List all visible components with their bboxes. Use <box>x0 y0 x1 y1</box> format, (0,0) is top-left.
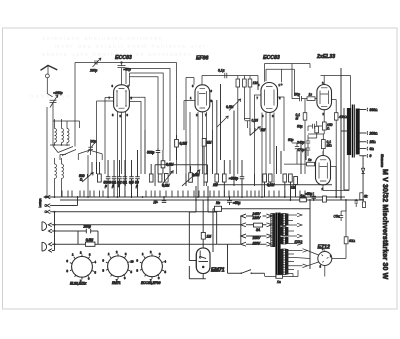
secondary winding block3 <box>281 237 284 244</box>
input transformer upper winding b <box>62 129 64 143</box>
svg-text:200p: 200p <box>83 225 92 229</box>
wire V4 anode top <box>321 76 351 109</box>
wire comb ticks into bus <box>62 191 305 198</box>
secondary winding col2 <box>285 214 288 226</box>
svg-text:0,5M: 0,5M <box>192 173 200 177</box>
wire B+ center tap <box>341 68 349 200</box>
tube V1 ECC83 envelope <box>114 85 130 112</box>
EZ12 pin numbers <box>320 247 333 269</box>
wire verticals group5 <box>177 135 307 174</box>
cap bus right <box>312 192 317 200</box>
svg-text:0,1µ: 0,1µ <box>218 69 225 73</box>
svg-text:0,5M: 0,5M <box>226 105 234 109</box>
band switch S1 wipers <box>58 147 76 156</box>
resistor 1M EM71 <box>201 233 205 240</box>
tap labels <box>369 108 379 158</box>
wire V5 anode down <box>323 155 349 191</box>
EF86 screen box <box>184 101 213 131</box>
jack chevron D2a <box>49 242 241 246</box>
wire secondary taps <box>359 110 366 156</box>
transformer core <box>275 213 277 279</box>
capacitor c4 row <box>123 160 127 197</box>
jack circle row3 <box>45 211 47 213</box>
wire top bus y62.5 <box>75 63 177 175</box>
wire trimmer to coils <box>53 102 80 152</box>
socket S2 pins <box>106 254 130 279</box>
tube V5 electrodes <box>319 160 327 181</box>
svg-text:0,3M: 0,3M <box>180 142 188 146</box>
svg-text:400Ω: 400Ω <box>339 115 348 119</box>
primary chevron r3 <box>267 234 272 238</box>
resistor MOhm fb2 <box>321 140 325 149</box>
jack circle row3 <box>45 211 47 213</box>
cap H <box>162 197 166 203</box>
wire V1 pin2 right <box>129 97 145 174</box>
socket S1 numbers <box>67 251 97 284</box>
primary chevron r1 <box>267 214 272 218</box>
socket S3 numbers <box>137 250 167 283</box>
primary chevron r3 <box>267 234 272 238</box>
svg-text:15Ω: 15Ω <box>370 140 377 144</box>
junction dot anode cap <box>121 62 123 64</box>
svg-text:1a: 1a <box>301 194 305 198</box>
heater chevrons <box>303 249 308 268</box>
svg-text:ECC83: ECC83 <box>263 55 280 61</box>
capacitor 50p V5 <box>292 143 299 149</box>
tap hooks <box>366 108 369 158</box>
wire mains row3 <box>246 235 267 237</box>
fuse 1a bus <box>300 198 307 202</box>
resistor box row a <box>98 174 102 182</box>
svg-text:MΩ: MΩ <box>327 144 333 148</box>
resistor box row e <box>215 174 219 182</box>
cap bus right <box>312 192 317 200</box>
potentiometer 0.5M mid <box>229 99 241 111</box>
jack chevron D2b <box>49 249 55 253</box>
cap H <box>162 197 166 203</box>
capacitor 50p anode ECC83 <box>118 63 126 86</box>
wire coil stems <box>47 107 70 197</box>
secondary winding block1 <box>281 214 284 226</box>
EM71 internals <box>199 251 209 262</box>
svg-text:EF86: EF86 <box>196 56 209 62</box>
tube V1 pin numbers <box>109 84 133 118</box>
bus components 50u cap <box>227 197 232 205</box>
svg-text:0,5M: 0,5M <box>86 238 94 242</box>
svg-text:1M: 1M <box>207 141 212 145</box>
svg-text:0: 0 <box>370 154 372 158</box>
tube EM71 envelope <box>196 248 210 274</box>
socket S1 numbers <box>67 251 97 284</box>
resistor box row c <box>158 174 162 182</box>
primary winding blocks <box>272 214 275 248</box>
svg-text:800Ω: 800Ω <box>370 108 379 112</box>
neon lamp Ns <box>215 206 222 211</box>
socket S1 pins <box>70 254 94 279</box>
potentiometer 0.5M row <box>165 174 169 183</box>
capacitor c5 row <box>129 160 133 197</box>
wire coupling bus y75.5 <box>202 76 258 85</box>
resistor box row e <box>215 174 219 182</box>
wire diode net <box>362 156 364 200</box>
DIN jack D2 <box>42 242 47 251</box>
wire g1 line <box>301 98 317 100</box>
EM71 dot <box>202 266 204 268</box>
potentiometer lower arrow <box>217 116 228 127</box>
potentiometer 500ohm <box>82 173 93 182</box>
resistor R box3 1M <box>248 79 252 87</box>
fuse 3A <box>254 223 263 227</box>
bus ground y197 <box>44 196 346 198</box>
antenna stem circle <box>46 74 50 78</box>
junction dots x54.5 <box>54 211 56 245</box>
wire antenna down <box>47 65 52 96</box>
svg-text:M: M <box>296 117 299 121</box>
bias line y184.8 <box>213 184 332 186</box>
capacitor 200p <box>86 229 90 233</box>
resistor R box1 <box>236 79 240 87</box>
wire switch feed <box>228 244 242 273</box>
svg-text:50µ: 50µ <box>297 125 303 129</box>
socket S2 pins <box>106 254 130 279</box>
capacitor c4 row <box>123 160 127 197</box>
svg-text:60p: 60p <box>91 139 97 143</box>
jack chevron row2 <box>47 197 78 207</box>
capacitor c3 row <box>117 160 121 197</box>
transformer core <box>276 213 278 278</box>
wire EM71 top <box>189 200 216 279</box>
tube V5 pin number <box>322 187 324 191</box>
jack circle row2 <box>45 205 47 207</box>
potentiometer tone <box>189 173 193 182</box>
wire comb ticks into bus <box>62 191 305 198</box>
tube V5 EL33 envelope <box>316 156 331 185</box>
wire secondary taps <box>359 110 366 156</box>
primary winding block <box>271 214 275 247</box>
resistor box row b <box>149 174 153 182</box>
input transformer upper winding a <box>55 129 57 143</box>
mains chevron r4 <box>241 242 246 246</box>
svg-text:500p: 500p <box>147 151 155 155</box>
svg-text:50p: 50p <box>295 93 301 97</box>
junction dots x54.5 <box>54 211 56 245</box>
socket S1 circle <box>72 256 93 277</box>
svg-text:ECC83,EF86: ECC83,EF86 <box>141 281 161 285</box>
resistor 400ohm <box>334 113 338 120</box>
potentiometer 0.5M row <box>165 174 169 183</box>
wire V5 top to fb <box>322 151 324 156</box>
output transformer primary winding <box>347 108 351 155</box>
socket S1 circle <box>72 256 93 277</box>
secondary winding block4 <box>281 249 284 275</box>
tube V2 pin numbers <box>190 84 213 117</box>
svg-text:1M: 1M <box>253 81 258 85</box>
grid stopper V5 <box>307 162 315 166</box>
jack chevron row3 <box>47 210 217 214</box>
jack chevron D1a <box>48 223 240 227</box>
fuse 1a bottom <box>276 275 283 279</box>
wire mains row1 <box>246 215 267 217</box>
resistor 0.1M <box>303 113 307 120</box>
wire mains row4 <box>246 243 267 245</box>
wire R24 up <box>345 200 347 237</box>
socket S1 pins <box>70 254 94 279</box>
svg-text:unleniahe aheruaten neirmehe: unleniahe aheruaten neirmehe <box>42 36 162 42</box>
tube EM71 envelope <box>196 248 210 274</box>
capacitor c2 row <box>112 160 116 197</box>
fuse 3A <box>254 223 263 227</box>
trimmer 60p <box>88 140 95 156</box>
line Ns y207.7 <box>213 200 310 269</box>
mains chevron r3 <box>241 234 246 238</box>
svg-text:110V: 110V <box>253 241 261 245</box>
svg-text:1s: 1s <box>309 93 313 97</box>
tap chevrons right <box>297 213 302 245</box>
output transformer core <box>352 105 354 158</box>
svg-text:220V: 220V <box>252 216 262 220</box>
primary chevron r4 <box>267 242 272 246</box>
input transformer lower winding b <box>62 164 64 178</box>
EM71 internals <box>199 251 209 262</box>
tube V3 pin numbers <box>257 83 282 118</box>
mains chevron r4 <box>241 242 246 246</box>
resistor box row f <box>223 174 227 182</box>
resistor bus right <box>323 196 327 202</box>
svg-text:EL32,EZ1x: EL32,EZ1x <box>70 282 87 286</box>
svg-text:≈250p: ≈250p <box>54 91 63 95</box>
capacitor 240p <box>306 141 310 148</box>
capacitor c2 row <box>112 160 116 197</box>
wire verticals group3 <box>186 84 224 212</box>
resistor box row i <box>283 174 287 182</box>
wire V3 anode up <box>265 64 311 99</box>
svg-text:200Ω: 200Ω <box>369 131 379 135</box>
svg-text:1M: 1M <box>207 235 212 239</box>
capacitor c1 row <box>106 160 110 197</box>
svg-text:≈50µ: ≈50µ <box>305 192 312 196</box>
socket S3 pins <box>140 254 164 279</box>
svg-text:0,5: 0,5 <box>129 181 134 185</box>
jack circle top <box>45 196 47 198</box>
svg-text:0,1: 0,1 <box>123 181 128 185</box>
capacitor 47p bus <box>354 201 358 207</box>
resistor 1M EM71 <box>201 233 205 240</box>
jack chevron top <box>47 195 50 199</box>
resistor 0.3M vert <box>175 140 179 148</box>
junction vertical x54.5 <box>54 212 56 251</box>
wire verticals group1 <box>92 162 99 174</box>
socket S2 circle <box>108 256 129 277</box>
jack circle top <box>45 196 47 198</box>
neon lamp Ns <box>215 206 222 211</box>
wire verticals group1 <box>92 162 99 174</box>
wire secondary taps <box>286 215 303 274</box>
switch roof <box>78 150 102 154</box>
resistor 0.5M mid <box>161 161 165 168</box>
resistor 1M vert <box>202 139 206 147</box>
wire EZ12 diagonals <box>295 251 319 266</box>
EM71 cathode circle <box>199 256 201 258</box>
tube V3 electrodes <box>265 87 275 109</box>
bias diode <box>362 168 365 173</box>
mains chevron r2 <box>241 223 246 227</box>
bias diode <box>362 168 365 173</box>
wire V2 drops <box>186 78 207 198</box>
wire transformer bottom <box>265 266 325 277</box>
DIN jack D2 <box>42 242 47 251</box>
capacitor 200p <box>86 229 90 233</box>
resistor 0.5M series <box>86 242 95 246</box>
resistor R24 <box>344 237 348 244</box>
junction dots bus200 <box>195 199 364 201</box>
mains chevron r3 <box>241 234 246 238</box>
wire screen bus <box>335 167 337 198</box>
EM71 dot <box>202 266 204 268</box>
resistor 5k diode line <box>360 193 363 200</box>
DIN jack D1 <box>42 222 47 231</box>
resistor box row g <box>263 174 267 182</box>
wire mains row1 <box>246 215 267 217</box>
bias line y184.8 <box>213 184 332 186</box>
junction vertical x54.5 <box>54 212 56 251</box>
resistor small bus2 <box>362 202 365 208</box>
ghost bleed-through text <box>30 36 205 100</box>
svg-text:2xEL33: 2xEL33 <box>316 54 335 60</box>
svg-text:p: p <box>104 184 107 188</box>
tube V3 ECC83 envelope <box>261 83 278 113</box>
svg-text:5: 5 <box>118 184 120 188</box>
resistor box row b <box>149 174 153 182</box>
capacitor 50p g1 <box>292 96 301 101</box>
socket S3 numbers <box>137 250 167 283</box>
mains switch <box>242 270 265 274</box>
svg-text:p: p <box>135 184 138 188</box>
mains chevron r1 <box>241 214 246 218</box>
wire V3 hat <box>266 69 294 96</box>
potentiometer tone <box>189 173 193 182</box>
jack chevron top <box>47 195 50 199</box>
svg-text:µ: µ <box>112 184 114 188</box>
svg-text:Siemens: Siemens <box>380 154 384 167</box>
capacitor 500p mid <box>156 148 160 156</box>
jack chevron D1b <box>48 229 78 233</box>
resistor 0.1M fb <box>315 126 319 133</box>
resistor 150ohm cathode <box>322 122 326 130</box>
svg-text:H+: H+ <box>154 201 158 205</box>
junction dots bus197 <box>46 196 342 198</box>
grid stopper R 1k <box>307 97 315 101</box>
bus ground y197 <box>44 196 346 198</box>
jack chevron D1a <box>48 223 240 227</box>
capacitor c1 row <box>106 160 110 197</box>
socket S2 circle <box>108 256 129 277</box>
EZ12 pins <box>320 250 329 267</box>
capacitor c6 row <box>135 150 139 197</box>
output transformer secondary winding <box>356 109 360 155</box>
svg-text:60Ω: 60Ω <box>349 239 356 243</box>
jack chevron D2a <box>49 242 241 246</box>
wire mains selector vertical <box>240 216 242 244</box>
EM71 cathode circle <box>199 256 201 258</box>
wire verticals group2 <box>145 130 170 174</box>
capacitor 470p <box>306 148 310 156</box>
wire mains row4 <box>246 243 267 245</box>
wire verticals group4 <box>230 82 296 200</box>
row values <box>104 181 139 189</box>
resistor 0.5M mid <box>161 161 165 168</box>
antenna <box>41 65 58 70</box>
wire mains row2 <box>246 224 267 226</box>
wire ECC83 pin7 left <box>97 98 114 175</box>
trimmer 280p on top bus <box>93 58 101 67</box>
tube V4 pin numbers <box>322 82 325 117</box>
secondary winding block4 <box>282 249 286 275</box>
capacitor 0.1u coupling <box>225 73 227 78</box>
tap hooks <box>366 108 369 158</box>
resistor box row i <box>283 174 287 182</box>
mains chevron r2 <box>241 223 246 227</box>
secondary winding block3 <box>282 237 286 244</box>
potentiometer 1M upper <box>250 127 260 136</box>
fuse 1a bus <box>300 198 307 202</box>
resistor box row d <box>204 174 208 182</box>
wire mains row2 <box>246 224 267 226</box>
svg-text:C5a: C5a <box>334 215 340 219</box>
wire B+ upper extension <box>345 200 347 211</box>
resistor box row h <box>268 174 272 182</box>
capacitor 500p mid <box>156 148 160 156</box>
socket S3 circle <box>142 256 163 277</box>
junction dots coil <box>46 144 62 198</box>
tone loop frame <box>155 165 207 186</box>
tap labels <box>369 108 379 158</box>
wire V3 drops <box>255 95 285 197</box>
wire diode net <box>362 156 364 200</box>
svg-text:1M: 1M <box>291 186 296 190</box>
wire EZ12 output <box>332 244 346 259</box>
input transformer upper winding c <box>67 129 69 143</box>
socket S2 numbers <box>103 250 134 283</box>
wire nested line y71 <box>130 73 164 150</box>
capacitor 0.25 <box>245 119 251 129</box>
tube V1 electrodes <box>117 89 126 109</box>
wire EM71 top <box>189 200 216 279</box>
switch dots <box>241 273 242 274</box>
capacitor 500p right <box>240 160 244 197</box>
svg-text:50p: 50p <box>288 138 294 142</box>
wire resistor stubs top <box>238 76 250 175</box>
potentiometer 500ohm <box>82 173 93 182</box>
svg-text:1M: 1M <box>261 128 266 132</box>
bus B y200 <box>60 199 363 201</box>
capacitor 50u cathode <box>308 124 315 131</box>
resistor box row k <box>294 177 298 185</box>
primary chevron r1 <box>267 214 272 218</box>
wire B+ center tap <box>341 68 349 200</box>
wire V1 bottom stubs <box>118 112 126 197</box>
wire nested line y67 <box>126 69 170 162</box>
socket S2 numbers <box>103 250 134 283</box>
capacitor c3 row <box>117 160 121 197</box>
resistor box row j <box>289 174 293 182</box>
wire V5 screen <box>331 166 337 168</box>
svg-text:Ns: Ns <box>216 201 220 205</box>
resistor 0.5M series <box>86 242 95 246</box>
wire V4 cathode <box>317 110 336 197</box>
socket S3 circle <box>142 256 163 277</box>
jack chevron D2b <box>49 249 55 253</box>
resistor box row d <box>204 174 208 182</box>
